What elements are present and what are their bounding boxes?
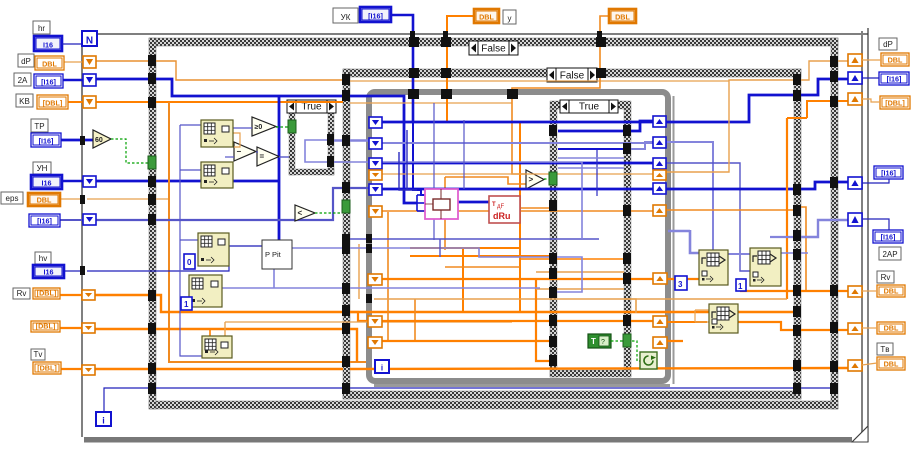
svg-text:TP: TP — [34, 122, 44, 131]
svg-text:0: 0 — [187, 258, 192, 267]
svg-text:[DBL]: [DBL] — [36, 322, 56, 331]
svg-text:I16: I16 — [42, 179, 52, 188]
svg-text:DBL: DBL — [888, 56, 903, 65]
svg-text:[DBL]: [DBL] — [37, 289, 57, 298]
svg-text:3: 3 — [678, 280, 683, 289]
svg-text:1: 1 — [184, 300, 189, 309]
svg-text:1: 1 — [738, 282, 743, 291]
svg-text:dP: dP — [21, 57, 31, 66]
svg-text:DBL: DBL — [884, 324, 899, 333]
svg-text:i: i — [102, 416, 105, 426]
svg-text:[I16]: [I16] — [39, 137, 54, 146]
svg-text:N: N — [86, 36, 93, 47]
svg-text:True: True — [579, 102, 600, 113]
svg-text:I16: I16 — [44, 268, 54, 277]
svg-text:DBL: DBL — [37, 196, 52, 205]
svg-text:УН: УН — [37, 164, 48, 173]
svg-text:I16: I16 — [43, 41, 53, 50]
svg-text:?: ? — [601, 339, 605, 346]
svg-text:DBL: DBL — [479, 13, 494, 22]
svg-text:dRu: dRu — [493, 211, 511, 221]
svg-text:2AP: 2AP — [882, 250, 897, 259]
svg-text:eps: eps — [6, 194, 19, 203]
svg-text:T: T — [492, 202, 496, 208]
svg-text:Tв: Tв — [880, 345, 889, 354]
svg-text:60: 60 — [95, 137, 103, 144]
svg-text:T: T — [591, 337, 596, 346]
svg-text:2A: 2A — [18, 76, 28, 85]
svg-text:dP: dP — [883, 40, 893, 49]
svg-text:DBL: DBL — [615, 13, 630, 22]
svg-text:=: = — [260, 152, 265, 161]
svg-text:[I16]: [I16] — [881, 233, 896, 242]
svg-text:≥0: ≥0 — [255, 124, 263, 131]
svg-text:DBL: DBL — [42, 60, 57, 69]
svg-text:P Pit: P Pit — [265, 250, 282, 259]
svg-text:−: − — [237, 147, 242, 156]
svg-text:DBL: DBL — [884, 287, 899, 296]
svg-text:i: i — [381, 364, 383, 373]
svg-text:[DBL]: [DBL] — [885, 99, 905, 108]
svg-text:False: False — [560, 71, 585, 82]
svg-text:Tv: Tv — [34, 350, 43, 359]
svg-text:дF: дF — [497, 204, 505, 210]
svg-text:[I16]: [I16] — [368, 12, 383, 21]
svg-text:[DBL]: [DBL] — [43, 99, 63, 108]
svg-text:[I16]: [I16] — [881, 169, 896, 178]
svg-text:<: < — [298, 209, 303, 218]
svg-text:[DBL]: [DBL] — [37, 364, 57, 373]
svg-text:УК: УК — [341, 13, 351, 22]
svg-text:y: y — [508, 14, 512, 23]
svg-text:[I16]: [I16] — [887, 75, 902, 84]
svg-text:Rv: Rv — [881, 273, 891, 282]
svg-text:False: False — [481, 44, 506, 55]
svg-text:DBL: DBL — [884, 360, 899, 369]
svg-text:True: True — [301, 102, 322, 113]
svg-text:>: > — [529, 175, 534, 184]
svg-text:KB: KB — [19, 97, 30, 106]
svg-text:hr: hr — [38, 24, 45, 33]
svg-text:Rv: Rv — [17, 289, 27, 298]
svg-text:hv: hv — [39, 254, 47, 263]
svg-text:[I16]: [I16] — [41, 78, 56, 87]
svg-text:[I16]: [I16] — [37, 217, 52, 226]
